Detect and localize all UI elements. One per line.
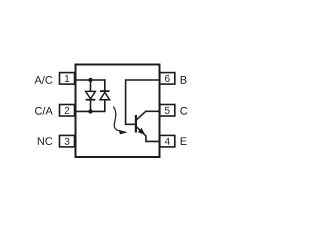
collector lead to pin 5 [136,111,160,120]
phototransistor Q1 [136,111,160,141]
LED D2 (right, cathode up) [100,79,110,112]
pin 5 [160,105,175,117]
wire: pin 6 to transistor base [126,80,160,124]
label C (pin 5) [180,107,187,115]
node: junction dot top [88,78,92,82]
light arrow from LED to transistor [113,107,127,135]
base bar [135,115,137,133]
label NC (pin 3) [38,137,53,145]
pin 6 [160,73,175,85]
pin 3 [60,135,75,147]
node: junction dot bottom [88,109,92,113]
label B (pin 6) [181,76,187,84]
wire: pin 2 to LED cathode rail [75,110,105,112]
pin 4 [160,135,175,147]
pin 2 [60,105,75,117]
label C/A (pin 2) [35,107,53,115]
label A/C (pin 1) [34,76,52,84]
package outline U1 [76,65,160,158]
emitter arrowhead [138,128,146,135]
pin 1 [60,73,75,85]
emitter lead to pin 4 [136,126,160,141]
label E (pin 4) [181,137,187,145]
LED D1 (left, cathode down) [86,79,96,112]
wire: pin 1 to LED anode rail [75,79,105,81]
